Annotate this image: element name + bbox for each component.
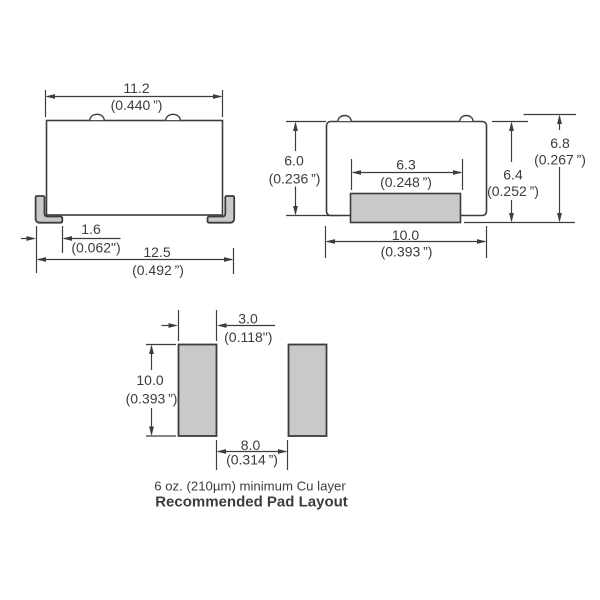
svg-text:6 oz. (210µm) minimum Cu layer: 6 oz. (210µm) minimum Cu layer bbox=[154, 479, 346, 494]
svg-text:3.0: 3.0 bbox=[238, 310, 258, 326]
svg-text:6.3: 6.3 bbox=[396, 157, 416, 173]
svg-text:(0.440 ”): (0.440 ”) bbox=[111, 97, 163, 113]
svg-text:11.2: 11.2 bbox=[123, 80, 149, 96]
svg-text:(0.314 ”): (0.314 ”) bbox=[226, 452, 278, 468]
svg-text:(0.118"): (0.118") bbox=[224, 329, 272, 345]
svg-text:10.0: 10.0 bbox=[136, 372, 163, 388]
svg-text:(0.236 ”): (0.236 ”) bbox=[269, 171, 321, 187]
svg-text:(0.252 ”): (0.252 ”) bbox=[487, 183, 539, 199]
svg-text:10.0: 10.0 bbox=[392, 227, 419, 243]
svg-text:(0.393 ”): (0.393 ”) bbox=[126, 391, 178, 407]
svg-text:6.4: 6.4 bbox=[503, 167, 523, 183]
svg-text:12.5: 12.5 bbox=[143, 244, 170, 260]
svg-text:(0.492 ”): (0.492 ”) bbox=[132, 262, 184, 278]
svg-text:(0.393 ”): (0.393 ”) bbox=[381, 244, 433, 260]
svg-text:(0.267 ”): (0.267 ”) bbox=[534, 152, 586, 168]
svg-text:6.8: 6.8 bbox=[550, 135, 570, 151]
svg-text:6.0: 6.0 bbox=[284, 153, 304, 169]
svg-text:(0.062"): (0.062") bbox=[71, 240, 120, 256]
svg-text:(0.248 ”): (0.248 ”) bbox=[380, 174, 432, 190]
svg-text:Recommended Pad Layout: Recommended Pad Layout bbox=[155, 494, 348, 511]
svg-text:1.6: 1.6 bbox=[81, 221, 101, 237]
